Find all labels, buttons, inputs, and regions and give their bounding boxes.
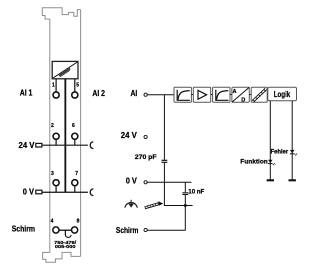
ground bar Fehler [289, 179, 296, 181]
terminal circle 6 [72, 133, 78, 139]
wire 24V rail on module [42, 144, 88, 146]
svg-text:D: D [241, 97, 245, 103]
svg-text:8: 8 [77, 218, 80, 224]
wire 10nF branch upper [184, 182, 186, 192]
svg-text:Fehler: Fehler [271, 149, 289, 156]
svg-text:24 V: 24 V [121, 131, 138, 140]
svg-text:4: 4 [51, 218, 54, 224]
wire left edge of housing [49, 19, 51, 252]
wire stub terminal5 to box [74, 79, 76, 92]
wire AI decoupling drop upper [163, 95, 165, 160]
amplifier block A1 [193, 87, 210, 102]
power jumper contact arc 0V [90, 189, 93, 196]
DIN rail contact symbol [145, 202, 160, 208]
terminal circle 2 [53, 133, 59, 139]
wire Schirm line [147, 229, 185, 231]
wire Fehler LED line [291, 101, 293, 180]
svg-text:A: A [233, 89, 237, 95]
svg-text:AI 2: AI 2 [92, 89, 105, 98]
svg-text:AI: AI [131, 89, 138, 98]
wire stub ISO-Logik [267, 94, 268, 96]
svg-text:Funktion: Funktion [240, 158, 268, 165]
wire stub U2-ISO [249, 94, 251, 96]
svg-text:0 V: 0 V [23, 187, 35, 196]
terminal circle 5 [72, 92, 78, 98]
filter block F2 [213, 87, 230, 102]
24V spade lug [36, 143, 42, 147]
wire stub F1-A1 [191, 94, 193, 96]
wire stub terminal2 to 24V line [55, 140, 57, 146]
svg-text:5: 5 [76, 83, 79, 89]
wire 0V rail on module [42, 191, 88, 193]
terminal circle 3 [53, 180, 59, 186]
terminal circle 7 [72, 180, 78, 186]
svg-text:Schirm: Schirm [12, 224, 35, 233]
node AI terminal [144, 93, 147, 96]
power jumper contact arc 24V [90, 142, 93, 149]
wire 0V line [147, 181, 191, 183]
svg-text:24 V: 24 V [19, 141, 36, 150]
wire Funktion LED line [269, 101, 271, 180]
svg-text:Schirm: Schirm [116, 226, 139, 235]
wire 10nF branch lower to Schirm line [184, 195, 186, 231]
housing bottom foot profile [43, 252, 81, 262]
wire stub terminal1 to box [55, 79, 57, 92]
LED Fehler [290, 150, 297, 156]
svg-text:AI 1: AI 1 [20, 88, 33, 97]
housing top latch profile [42, 8, 80, 19]
wire AI decoupling drop lower [163, 163, 165, 206]
filter block F1 [174, 87, 191, 102]
svg-text:6: 6 [72, 123, 75, 129]
capacitor C2 10nF [182, 193, 188, 195]
wire AI to filter chain [147, 94, 174, 96]
functional earth symbol [125, 200, 137, 208]
svg-text:2: 2 [51, 123, 54, 129]
terminal circle 4 [53, 227, 59, 233]
ground bar Funktion [267, 179, 274, 181]
svg-text:0 V: 0 V [126, 176, 138, 185]
Logik block [268, 87, 297, 100]
wire functional earth line [164, 205, 193, 207]
node 0V terminal [144, 181, 147, 184]
LED Funktion [268, 160, 275, 166]
wire stub terminal6 to 24V line [74, 140, 76, 146]
shield hook symbol [65, 230, 71, 237]
wire shield link between terminal 4 and 8 [59, 229, 71, 231]
svg-text:005-000: 005-000 [55, 244, 76, 249]
wire right edge of housing [80, 10, 82, 257]
terminal circle 8 [72, 227, 78, 233]
svg-text:Logik: Logik [274, 90, 291, 99]
wire stub terminal3 to 0V line [55, 186, 57, 192]
svg-text:10 nF: 10 nF [188, 189, 204, 196]
0V spade lug [36, 190, 42, 194]
capacitor C1 270pF [162, 160, 168, 162]
galvanic isolation block [251, 87, 267, 102]
wire stub F2-U2 [230, 94, 232, 96]
function box U1 (module electronics symbol) [52, 61, 78, 78]
terminal circle 1 [53, 92, 59, 98]
junction dot shield node [184, 204, 187, 207]
wire stub terminal7 to 0V line [74, 186, 76, 192]
wire stub A1-F2 [211, 94, 213, 96]
svg-text:7: 7 [75, 171, 78, 177]
wire thick center lead from box to 0V line [64, 79, 66, 193]
svg-text:270 pF: 270 pF [135, 154, 157, 161]
svg-text:1: 1 [52, 83, 55, 89]
node Schirm terminal [144, 228, 147, 231]
node 24V terminal (unconnected) [144, 135, 147, 138]
A/D converter block U2 [232, 87, 249, 103]
svg-text:3: 3 [51, 171, 54, 177]
module housing outline [42, 8, 80, 262]
